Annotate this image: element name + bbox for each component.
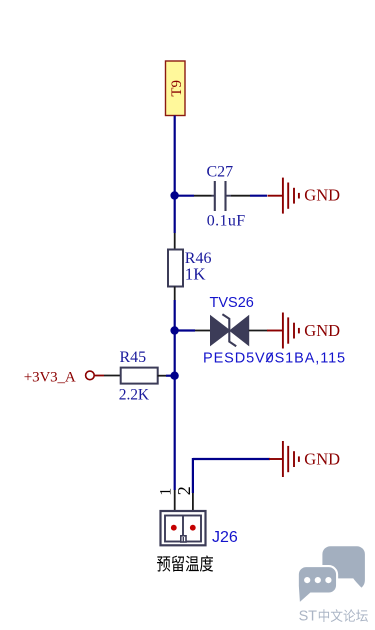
caption char 度 — [200, 555, 213, 571]
svg-text:GND: GND — [304, 186, 340, 205]
junction node at R45 tap — [170, 372, 178, 380]
resistor R45 — [121, 368, 175, 384]
svg-text:2: 2 — [174, 486, 194, 495]
wire: TVS26 to GND2 — [249, 330, 268, 332]
svg-text:GND: GND — [304, 450, 340, 469]
TVS diode TVS26 — [211, 314, 249, 346]
watermark small bubble — [298, 566, 337, 604]
pin 1 of J26 — [174, 490, 176, 510]
svg-text:GND: GND — [304, 321, 340, 340]
svg-text:1: 1 — [157, 488, 174, 496]
watermark dots — [304, 577, 331, 583]
svg-text:2.2K: 2.2K — [119, 386, 150, 403]
pin 2 of J26 — [192, 493, 194, 510]
watermark char 中 — [319, 609, 329, 622]
caption char 预 — [157, 556, 170, 571]
wire: R46 to J26 (vertical net) — [174, 300, 176, 490]
svg-text:C27: C27 — [207, 164, 234, 181]
wire: junction to TVS26 — [175, 329, 211, 331]
ground GND3 — [269, 441, 299, 477]
caption char 温 — [186, 556, 199, 572]
ground GND1 — [268, 178, 299, 214]
svg-text:T9: T9 — [169, 80, 185, 97]
capacitor C27 — [215, 181, 226, 211]
connector sheet-entry T9 — [166, 61, 186, 116]
svg-text:ST: ST — [299, 609, 317, 625]
svg-text:PESD5V0S1BA,115: PESD5V0S1BA,115 — [203, 351, 346, 367]
wire: pin2 net to GND3 — [193, 458, 270, 493]
ground GND2 — [267, 313, 299, 349]
terminal circle — [86, 371, 95, 380]
slashed zero mark — [266, 353, 272, 363]
connector J26 — [161, 511, 206, 545]
svg-text:TVS26: TVS26 — [210, 295, 254, 311]
resistor R46 — [168, 233, 183, 300]
watermark char 论 — [344, 609, 356, 621]
svg-text:0.1uF: 0.1uF — [207, 212, 246, 229]
junction node at C27 tap — [170, 191, 178, 199]
wire: junction to C27 left plate — [175, 195, 194, 197]
svg-text:1K: 1K — [185, 265, 207, 284]
watermark chat icon big bubble — [322, 546, 365, 587]
wire: C27 right plate to GND1 — [231, 195, 267, 197]
watermark char 坛 — [356, 609, 368, 621]
watermark char 文 — [331, 609, 343, 622]
svg-text:R45: R45 — [120, 349, 147, 366]
junction node at TVS tap — [170, 326, 178, 334]
svg-text:+3V3_A: +3V3_A — [24, 369, 76, 385]
wire: T9 to R46 (vertical net) — [174, 116, 176, 234]
caption char 留 — [172, 556, 184, 572]
wire: terminal to R45 — [94, 375, 120, 377]
svg-text:J26: J26 — [212, 529, 238, 546]
